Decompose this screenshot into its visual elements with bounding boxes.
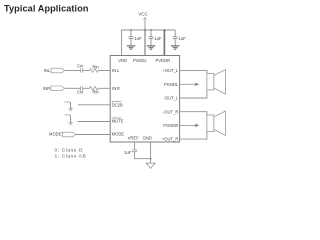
wire Cin to Rin	[83, 70, 90, 72]
svg-text:Rin: Rin	[92, 64, 99, 69]
wire Rin to INL pin	[98, 70, 110, 72]
junction VCC/rail	[144, 29, 146, 31]
svg-text:Cin: Cin	[77, 64, 84, 69]
junction PVDDR/rail	[164, 29, 166, 31]
svg-text:Typical Application: Typical Application	[4, 3, 89, 13]
ground for C2	[147, 46, 155, 49]
arrow PGNDL	[180, 83, 196, 85]
svg-text:PGNDR: PGNDR	[163, 123, 178, 128]
capacitor C1 1uF	[129, 30, 134, 46]
op-amp U1 IC body	[110, 56, 179, 143]
capacitor C2 1uF	[149, 30, 154, 46]
wire -OUT_R to speaker2	[180, 112, 207, 115]
svg-text:+OUT_R: +OUT_R	[162, 137, 179, 142]
ground (open triangle)	[146, 163, 155, 168]
svg-text:MODE: MODE	[112, 132, 125, 137]
capacitor C4 1uF on VREF	[132, 149, 137, 151]
wire VCC rail	[121, 29, 175, 31]
wire PVDDR pin drop (thick)	[163, 30, 166, 56]
wire switch S1 to DC2B pin	[78, 104, 110, 106]
capacitor Cin (second)	[80, 86, 82, 90]
wire INR to Cin	[65, 87, 81, 89]
resistor Rin (second)	[90, 86, 99, 90]
wire MODE tag to MODE pin	[76, 134, 110, 136]
wire Cin to Rin second	[83, 87, 90, 89]
switch S2 (MUTE)	[64, 115, 72, 124]
wire switch S2 to MUTE pin	[78, 121, 110, 123]
svg-text:1uF: 1uF	[124, 150, 132, 155]
arrow PGNDR	[180, 124, 196, 126]
wire INL to Cin	[65, 70, 81, 72]
svg-text:-OUT_R: -OUT_R	[163, 109, 179, 114]
svg-text:1uF: 1uF	[134, 36, 142, 41]
speaker SP2	[207, 115, 214, 131]
capacitor C3 1uF	[173, 30, 178, 46]
svg-text:PGNDL: PGNDL	[164, 82, 179, 87]
svg-text:MODE: MODE	[49, 132, 62, 137]
svg-text:0: Class D: 0: Class D	[55, 148, 84, 154]
speaker SP1	[207, 74, 214, 90]
wire VCC vertical to rail	[144, 19, 146, 30]
wire C4 to GND net	[135, 152, 151, 159]
wire GND pin down	[150, 142, 152, 163]
svg-text:GND: GND	[143, 135, 152, 140]
wire -OUT_L to speaker1	[180, 90, 207, 98]
wire Rin to INR pin	[98, 87, 110, 89]
svg-text:Rin: Rin	[92, 89, 99, 94]
resistor Rin (left)	[90, 69, 99, 73]
junction dot VREF/GND	[150, 158, 152, 160]
svg-text:INL: INL	[112, 68, 120, 73]
junction C2/rail	[150, 29, 152, 31]
capacitor Cin (left)	[80, 68, 82, 72]
wire PVDDL pin drop	[144, 30, 146, 56]
svg-text:+OUT_L: +OUT_L	[162, 68, 179, 73]
svg-text:VREF: VREF	[128, 135, 140, 140]
svg-text:MUTE: MUTE	[112, 119, 124, 124]
svg-text:VDD: VDD	[118, 58, 127, 63]
svg-text:INR: INR	[43, 86, 50, 91]
svg-text:Cin: Cin	[77, 89, 84, 94]
svg-text:PVDDR: PVDDR	[155, 58, 170, 63]
wire VREF pin down	[134, 142, 136, 149]
svg-text:INL: INL	[44, 68, 51, 73]
svg-text:1: Class AB: 1: Class AB	[55, 153, 87, 159]
wire +OUT_R to speaker2	[180, 131, 207, 139]
wire VDD pin drop	[121, 30, 123, 56]
ground for C1	[127, 46, 135, 49]
svg-text:VCC: VCC	[138, 12, 148, 17]
wire +OUT_L to speaker1	[180, 70, 207, 73]
svg-text:1uF: 1uF	[178, 36, 186, 41]
svg-text:-OUT_L: -OUT_L	[163, 96, 179, 101]
svg-text:INR: INR	[112, 86, 121, 91]
switch S1 (DC2B)	[64, 102, 72, 110]
junction C1/rail	[130, 29, 132, 31]
VCC terminal chevron	[144, 18, 147, 20]
svg-text:PVDDL: PVDDL	[133, 58, 148, 63]
ground for C3	[171, 46, 179, 49]
svg-text:DC2B: DC2B	[112, 102, 123, 107]
svg-text:1uF: 1uF	[154, 36, 162, 41]
